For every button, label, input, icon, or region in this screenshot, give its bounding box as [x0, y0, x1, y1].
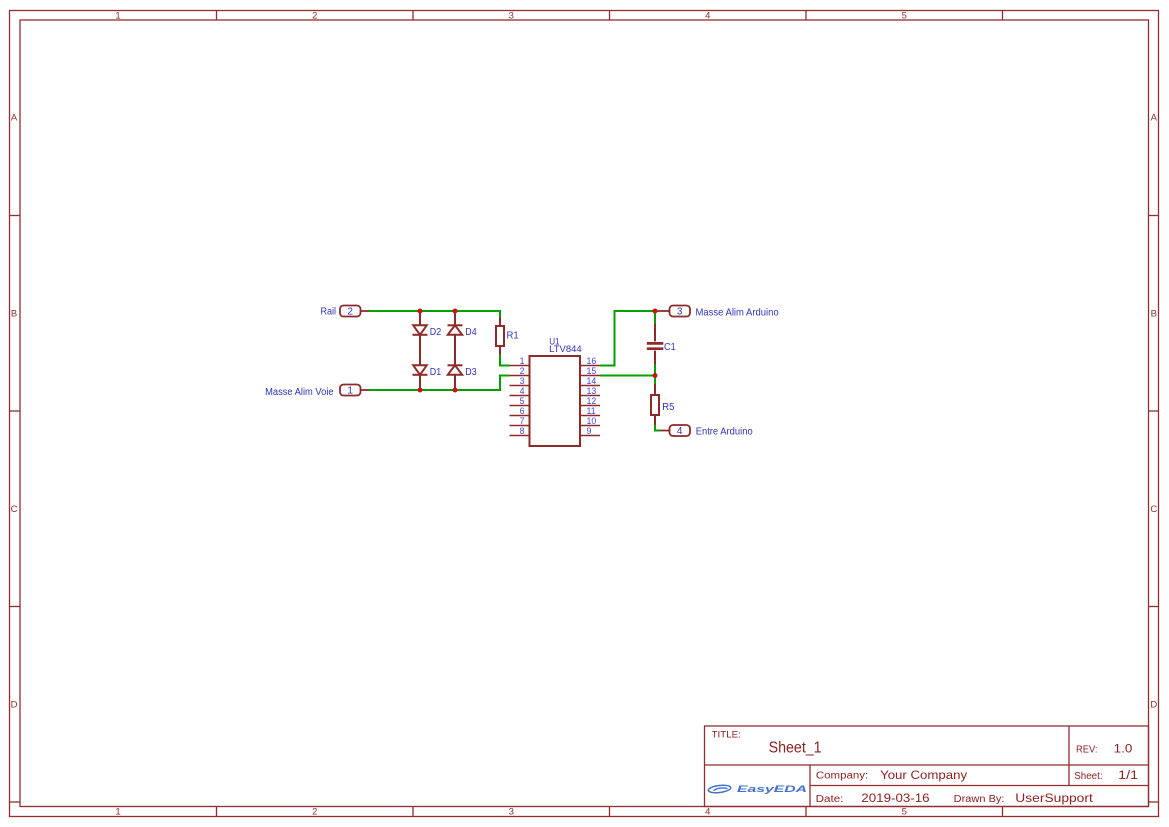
svg-text:2: 2: [312, 10, 317, 21]
svg-text:Masse Alim Arduino: Masse Alim Arduino: [696, 307, 780, 318]
svg-text:C: C: [1150, 504, 1157, 515]
svg-text:2: 2: [312, 807, 317, 818]
pin 9: [580, 426, 600, 436]
pin 6: [510, 406, 530, 416]
diode D4: [448, 311, 463, 365]
svg-text:1/1: 1/1: [1118, 770, 1138, 782]
wire net Rail: port 2 to R1 top: [369, 311, 500, 318]
svg-text:2: 2: [520, 366, 525, 376]
op-amp IC U1 LTV844 body: [530, 356, 581, 446]
svg-text:1.0: 1.0: [1114, 743, 1133, 755]
svg-text:5: 5: [902, 807, 907, 818]
diode D3: [448, 365, 463, 390]
port 4: [660, 425, 690, 437]
svg-text:R1: R1: [507, 331, 520, 342]
wire IC pin 16 to node Masse Alim Arduino: [600, 311, 655, 366]
svg-text:2: 2: [347, 307, 353, 318]
svg-text:5: 5: [902, 10, 907, 21]
svg-text:3: 3: [520, 376, 525, 386]
junction at Masse Alim Voie/D1: [418, 388, 423, 393]
svg-text:16: 16: [587, 356, 597, 366]
svg-text:C: C: [11, 504, 18, 515]
svg-text:4: 4: [677, 426, 683, 437]
svg-text:EasyEDA: EasyEDA: [737, 784, 807, 795]
port 3: [655, 306, 690, 318]
svg-text:1: 1: [347, 386, 353, 397]
svg-text:B: B: [1151, 308, 1157, 319]
pin 3: [510, 376, 530, 386]
junction at Rail/D4: [453, 309, 458, 314]
pin 4: [510, 386, 530, 396]
pin 16: [580, 356, 600, 366]
svg-text:C1: C1: [664, 342, 676, 353]
svg-text:D3: D3: [465, 367, 477, 378]
svg-text:Entre Arduino: Entre Arduino: [696, 426, 753, 437]
wire R5 bottom to port 4: [655, 425, 660, 431]
wire IC pin 15 to node C1/R5: [600, 375, 655, 377]
pin 11: [580, 406, 600, 416]
svg-text:10: 10: [587, 416, 597, 426]
svg-text:Date:: Date:: [816, 794, 844, 805]
svg-text:A: A: [1151, 113, 1158, 124]
svg-text:4: 4: [705, 807, 710, 818]
svg-text:A: A: [11, 113, 18, 124]
svg-text:15: 15: [587, 366, 597, 376]
svg-text:1: 1: [520, 356, 525, 366]
svg-text:D1: D1: [430, 367, 442, 378]
svg-text:1: 1: [115, 10, 120, 21]
junction at Masse Alim Voie/D3: [453, 388, 458, 393]
svg-text:9: 9: [587, 426, 592, 436]
svg-text:7: 7: [520, 416, 525, 426]
svg-text:4: 4: [520, 386, 525, 396]
svg-text:14: 14: [587, 376, 597, 386]
port 2: [340, 306, 369, 318]
svg-text:Company:: Company:: [816, 770, 868, 781]
svg-text:Sheet_1: Sheet_1: [769, 739, 822, 756]
resistor R5: [651, 384, 659, 425]
svg-text:3: 3: [509, 807, 514, 818]
svg-text:3: 3: [509, 10, 514, 21]
svg-text:D: D: [1150, 700, 1157, 711]
wire C1 bottom to node R5: [654, 365, 656, 385]
svg-text:4: 4: [705, 10, 710, 21]
pin 7: [510, 416, 530, 426]
svg-text:Rail: Rail: [321, 306, 337, 317]
svg-text:REV:: REV:: [1076, 744, 1098, 755]
pin 5: [510, 396, 530, 406]
svg-text:D: D: [11, 700, 18, 711]
pin 10: [580, 416, 600, 426]
svg-text:Sheet:: Sheet:: [1074, 771, 1102, 782]
junction at node C1/R5/pin15: [653, 373, 658, 378]
svg-text:B: B: [11, 308, 17, 319]
diode D1: [413, 365, 428, 390]
pin 13: [580, 386, 600, 396]
svg-text:LTV844: LTV844: [549, 344, 582, 354]
pin 15: [580, 366, 600, 376]
pin 8: [510, 426, 530, 436]
svg-text:D2: D2: [430, 327, 442, 338]
svg-text:8: 8: [520, 426, 525, 436]
svg-text:11: 11: [587, 406, 596, 416]
svg-text:Masse Alim Voie: Masse Alim Voie: [265, 387, 334, 398]
svg-text:5: 5: [520, 396, 525, 406]
pin 1: [510, 356, 530, 366]
pin 2: [510, 366, 530, 376]
diode D2: [413, 311, 428, 365]
svg-text:UserSupport: UserSupport: [1015, 793, 1093, 805]
svg-text:12: 12: [587, 396, 597, 406]
wire node Masse Alim Arduino to C1 top: [654, 311, 656, 324]
svg-text:3: 3: [677, 307, 683, 318]
svg-text:13: 13: [587, 386, 597, 396]
pin 12: [580, 396, 600, 406]
wire R1 bottom to IC pin 1: [500, 355, 510, 366]
svg-text:D4: D4: [465, 327, 477, 338]
junction at Rail/D2: [418, 309, 423, 314]
junction at node Masse Alim Arduino/C1: [653, 309, 658, 314]
svg-text:R5: R5: [662, 402, 675, 413]
svg-text:6: 6: [520, 406, 525, 416]
svg-text:2019-03-16: 2019-03-16: [861, 793, 929, 805]
port 1: [340, 385, 369, 397]
svg-text:TITLE:: TITLE:: [712, 730, 741, 740]
resistor R1: [496, 318, 504, 355]
pin 14: [580, 376, 600, 386]
wire net Masse Alim Voie: port 1 to IC pin 2: [369, 376, 510, 391]
svg-text:1: 1: [115, 807, 120, 818]
svg-text:Your Company: Your Company: [880, 770, 967, 782]
capacitor C1: [647, 324, 664, 365]
svg-text:Drawn By:: Drawn By:: [954, 794, 1005, 805]
